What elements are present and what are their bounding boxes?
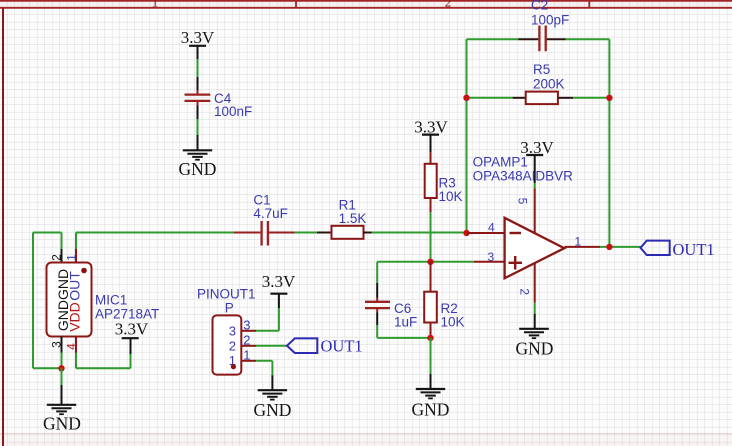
wire R5 right	[573, 97, 609, 99]
wire C2 right	[566, 38, 610, 40]
wire pin1 vertical to GND	[271, 361, 273, 375]
svg-text:PINOUT1: PINOUT1	[197, 287, 256, 302]
wire down to C6	[376, 262, 378, 283]
MIC1 pin1 marker dot	[81, 268, 87, 274]
power flag 3.3V bar (MIC)	[122, 337, 139, 339]
resistor R5 right pin	[558, 97, 573, 99]
resistor R1 right pin	[363, 232, 372, 234]
power stem pin (MIC)	[130, 338, 132, 354]
resistor R2 top pin	[430, 262, 432, 292]
svg-text:OUT1: OUT1	[673, 240, 715, 259]
capacitor C4 top pin	[197, 77, 199, 90]
wire MIC pin4 horizontal	[76, 367, 131, 369]
op-amp U1 triangle body	[505, 218, 565, 278]
ground stem (MIC)	[61, 385, 63, 405]
MIC1 pin 1	[75, 249, 77, 263]
svg-text:1uF: 1uF	[394, 315, 417, 330]
connector pin 1 stub	[241, 360, 256, 362]
svg-text:100nF: 100nF	[214, 104, 252, 119]
power flag 3.3V bar (PINOUT)	[270, 293, 287, 295]
capacitor C1 left pin	[234, 232, 261, 234]
MIC1 body	[47, 263, 92, 337]
svg-text:3.3V: 3.3V	[115, 320, 149, 339]
MIC1 pin 3	[61, 337, 63, 353]
op-amp pin 5 V+	[534, 189, 536, 234]
wire up to 3.3V (MIC)	[130, 354, 132, 368]
wire R5 left	[467, 97, 513, 99]
power stem pin (C4 top)	[197, 46, 199, 59]
wire 3.3V to C4	[197, 59, 199, 77]
wire MIC pin 3 to junction	[61, 353, 63, 369]
wire down to MIC pin 2	[61, 233, 63, 250]
wire pin3 vertical	[278, 308, 280, 331]
MIC1 pin 2	[61, 249, 63, 263]
svg-text:200K: 200K	[533, 77, 565, 92]
wire opamp pin2 to GND	[534, 303, 536, 314]
svg-text:GND: GND	[516, 339, 554, 359]
svg-text:OUT1: OUT1	[321, 337, 363, 356]
connector pin 2 stub	[241, 345, 256, 347]
wire junction to GND (R2)	[430, 338, 432, 374]
capacitor C6 top pin	[376, 283, 378, 298]
wire pin2 to net flag	[256, 345, 287, 347]
ground stem (C4)	[197, 135, 199, 150]
capacitor C6 plates	[365, 302, 390, 308]
svg-text:2: 2	[243, 332, 250, 347]
svg-text:10K: 10K	[439, 189, 463, 204]
svg-text:OPA348AIDBVR: OPA348AIDBVR	[473, 169, 574, 184]
svg-text:1: 1	[152, 0, 159, 10]
capacitor C2 left pin	[518, 38, 538, 40]
resistor R3 bottom pin	[430, 198, 432, 212]
svg-text:3: 3	[229, 324, 236, 339]
svg-text:3.3V: 3.3V	[181, 28, 215, 47]
net flag OUT1 (right) pentagon	[641, 241, 670, 255]
svg-text:3: 3	[488, 250, 495, 264]
svg-text:3.3V: 3.3V	[262, 272, 296, 291]
svg-text:P: P	[225, 301, 234, 316]
wire MIC GND rail left vertical	[32, 233, 34, 369]
power stem pin (opamp)	[534, 155, 536, 183]
wire rail to junction	[33, 367, 62, 369]
op-amp pin 3 non-inverting input	[474, 261, 505, 263]
ground stem (opamp)	[534, 314, 536, 329]
junction dot feedback left	[463, 95, 469, 101]
svg-text:100pF: 100pF	[531, 13, 569, 28]
wire C2 left	[467, 38, 519, 40]
power stem pin (R3)	[430, 135, 432, 152]
connector pin 3 stub	[241, 330, 256, 332]
ground stem (PINOUT)	[271, 375, 273, 390]
connector pin1 marker dot	[231, 364, 236, 369]
svg-text:1: 1	[243, 347, 250, 362]
wire MIC GND rail top horizontal	[33, 232, 62, 234]
svg-text:5: 5	[516, 198, 530, 205]
capacitor C4 bottom pin	[197, 102, 199, 106]
wire C6 to R2 bottom junction	[377, 337, 430, 339]
junction dot feedback right	[606, 95, 612, 101]
wire MIC output to C1	[76, 232, 236, 234]
junction dot output node	[606, 244, 612, 250]
svg-text:1: 1	[65, 254, 79, 261]
op-amp plus sign	[509, 256, 523, 270]
svg-text:MIC1: MIC1	[95, 293, 127, 308]
wire R1 to inverting node	[372, 232, 467, 234]
capacitor C1 right pin	[269, 232, 295, 234]
capacitor C6 bottom pin	[376, 309, 378, 313]
svg-text:4.7uF: 4.7uF	[253, 206, 288, 221]
connector PINOUT1 body	[213, 315, 242, 374]
op-amp pin 2 V-	[534, 263, 536, 303]
ground symbol (PINOUT)	[258, 390, 288, 399]
svg-text:4: 4	[488, 221, 495, 235]
resistor R5 left pin	[513, 97, 526, 99]
power stem pin (PINOUT)	[278, 294, 280, 308]
op-amp pin 4 inverting input	[467, 232, 505, 234]
svg-text:OPAMP1: OPAMP1	[473, 155, 528, 170]
wire C6 bottom corner	[376, 325, 378, 338]
wire pin3 to 3.3V corner	[256, 330, 279, 332]
wire 3.3V to opamp pin5	[534, 183, 536, 189]
power flag 3.3V bar (C4)	[189, 45, 206, 47]
svg-text:3: 3	[243, 317, 250, 332]
svg-text:2: 2	[518, 288, 532, 295]
power flag 3.3V bar (R3)	[422, 134, 439, 136]
svg-text:1: 1	[575, 235, 582, 249]
wire pin1 corner	[256, 360, 272, 362]
ground stem (R2)	[430, 374, 432, 389]
capacitor C2 plates	[539, 26, 545, 52]
ground symbol (opamp)	[519, 329, 549, 338]
wire up from MIC pin 1	[75, 233, 77, 250]
svg-text:OUT: OUT	[67, 271, 83, 301]
svg-text:2: 2	[445, 0, 452, 10]
wire C4 to GND	[197, 119, 199, 135]
svg-text:GND: GND	[412, 400, 450, 420]
op-amp pin 1 output	[565, 246, 601, 248]
svg-text:GND: GND	[179, 159, 217, 179]
capacitor C1 plates	[262, 221, 268, 246]
power flag 3.3V bar (opamp)	[526, 154, 543, 156]
op-amp minus sign	[510, 232, 522, 234]
svg-text:GND: GND	[253, 400, 291, 420]
junction dot non-inverting node	[427, 259, 433, 265]
wire R3 to non-inverting node	[430, 212, 432, 261]
resistor R1 body	[332, 226, 364, 239]
svg-text:VDD: VDD	[67, 302, 83, 332]
resistor R3 top pin	[430, 152, 432, 164]
junction dot MIC ground node	[58, 365, 64, 371]
MIC1 pin 4	[75, 337, 77, 353]
wire non-inverting input horizontal	[377, 261, 474, 263]
svg-text:2: 2	[229, 339, 236, 354]
svg-text:R5: R5	[533, 62, 550, 77]
wire feedback right vertical	[608, 39, 610, 247]
junction dot R2/C6 ground node	[427, 335, 433, 341]
svg-text:1.5K: 1.5K	[339, 211, 367, 226]
ground symbol (MIC)	[47, 405, 76, 414]
wire C1 to R1	[295, 232, 317, 234]
wire junction to GND	[61, 368, 63, 385]
junction dot inverting input node	[463, 230, 469, 236]
wire feedback left vertical	[466, 39, 468, 233]
resistor R2 bottom pin	[430, 323, 432, 338]
svg-text:2: 2	[50, 254, 64, 261]
resistor R2 body	[424, 292, 437, 323]
net flag OUT1 (left) pentagon	[287, 338, 317, 353]
wire MIC pin4 down	[75, 353, 77, 369]
svg-text:GND: GND	[43, 414, 81, 434]
ground symbol (C4)	[183, 150, 212, 159]
capacitor C2 right pin	[547, 38, 566, 40]
resistor R5 body	[526, 92, 558, 105]
resistor R1 left pin	[317, 232, 332, 234]
resistor R3 body	[425, 164, 437, 198]
wire output to junction	[600, 246, 640, 248]
svg-text:10K: 10K	[441, 315, 465, 330]
ground symbol (R2)	[416, 389, 445, 398]
svg-text:C2: C2	[531, 0, 548, 13]
capacitor C4 plates	[185, 95, 211, 101]
